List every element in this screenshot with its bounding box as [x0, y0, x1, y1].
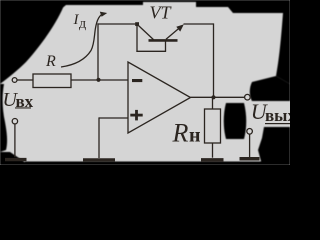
ground bar center	[83, 158, 115, 161]
ground bar Rn	[201, 158, 224, 162]
node junction at R / minus input	[96, 78, 100, 82]
op-amp minus symbol	[132, 79, 142, 82]
base lead down	[165, 42, 167, 52]
resistor Rn	[205, 109, 221, 143]
svg-text:н: н	[189, 125, 201, 147]
resistor R	[33, 74, 71, 88]
wire input to R	[17, 79, 33, 81]
wire emitter to right	[184, 23, 214, 25]
wire non-inverting down to ground	[98, 117, 100, 158]
current arrow Id curve	[61, 14, 104, 67]
node junction at output	[211, 95, 215, 99]
underline vyx	[265, 123, 290, 124]
transistor base bar	[149, 39, 178, 42]
output terminal lower	[247, 129, 253, 135]
svg-text:R: R	[45, 53, 56, 70]
wire R to op-amp minus input	[71, 79, 128, 81]
current arrow Id arrowhead	[100, 12, 107, 17]
wire output	[191, 96, 245, 98]
underline vx	[15, 107, 31, 108]
black tongue right-mid	[250, 76, 290, 101]
wire Rn to ground	[212, 143, 214, 158]
black band: bottom edge	[0, 162, 290, 165]
output terminal upper	[245, 94, 251, 100]
svg-text:VT: VT	[150, 3, 173, 23]
wire lower output terminal to ground	[249, 134, 251, 157]
black corner: top-left	[0, 0, 66, 84]
op-amp plus symbol	[130, 110, 142, 121]
black strip: top edge	[60, 0, 143, 10]
svg-text:R: R	[172, 118, 189, 147]
wire right vertical down	[213, 23, 215, 97]
black patch between Rn and output	[224, 103, 247, 139]
transistor emitter arrowhead	[176, 24, 184, 31]
black corner: bottom-left	[0, 152, 28, 165]
base loop horizontal	[136, 50, 166, 52]
black strip: left edge	[0, 84, 7, 152]
paper background	[0, 0, 290, 165]
wire lower input terminal to ground	[14, 124, 16, 157]
wire non-inverting input	[99, 117, 128, 119]
op-amp triangle	[128, 62, 191, 133]
input terminal lower	[12, 119, 17, 124]
black strip: right edge	[276, 13, 290, 84]
wire feedback top horizontal	[97, 23, 137, 25]
transistor VT collector diagonal	[138, 25, 154, 40]
base loop vertical to node	[136, 24, 138, 52]
svg-text:д: д	[79, 17, 86, 32]
black block lower-right	[258, 127, 290, 165]
black corner: top-right	[228, 0, 290, 13]
wire feedback vertical	[97, 23, 99, 80]
ground bar left	[5, 158, 27, 161]
node junction at transistor base/collector	[135, 22, 139, 26]
transistor emitter diagonal	[166, 26, 182, 40]
ground bar right	[240, 157, 260, 161]
svg-text:вых: вых	[265, 106, 290, 125]
wire node to Rn	[212, 97, 214, 109]
input terminal upper	[12, 78, 17, 83]
